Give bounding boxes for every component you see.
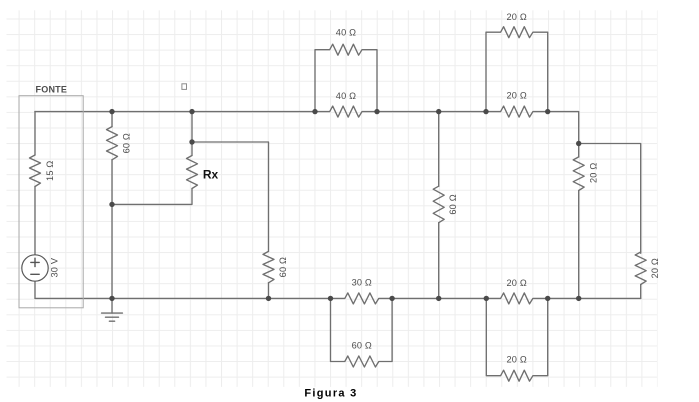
resistor 20 ohm upper branch (486, 27, 548, 112)
wire source column lower (34, 281, 36, 298)
wire node A column lower (111, 160, 113, 299)
wire node C to R12 top (579, 144, 641, 254)
wire R11 top lead (578, 144, 580, 157)
svg-text:FONTE: FONTE (36, 84, 68, 94)
junction node C bottom (576, 296, 581, 301)
wire source column middle (34, 187, 36, 255)
resistor 20 ohm on top rail (486, 106, 548, 117)
wire R8 bottom lead (438, 223, 440, 299)
wire top rail right segment to node C (548, 112, 579, 144)
junction node 60 lower-left bottom (266, 296, 271, 301)
junction node 20 pair right (545, 109, 550, 114)
svg-text:40 Ω: 40 Ω (336, 91, 356, 101)
junction node 20 bottom pair left (484, 296, 489, 301)
resistor Rx (187, 156, 198, 189)
svg-text:20 Ω: 20 Ω (506, 278, 526, 288)
resistor 60 ohm left (107, 127, 118, 160)
svg-text:60 Ω: 60 Ω (122, 133, 132, 153)
resistor 40 ohm lower (315, 106, 377, 117)
junction node 40 pair left (312, 109, 317, 114)
junction node C (576, 141, 581, 146)
wire top rail middle segment (377, 111, 486, 113)
svg-text:20 Ω: 20 Ω (589, 163, 599, 183)
svg-text:20 Ω: 20 Ω (506, 90, 526, 100)
wire bottom rail middle segment (392, 297, 486, 299)
svg-text:60 Ω: 60 Ω (278, 257, 288, 277)
junction node Rx upper (189, 139, 194, 144)
junction node 20 pair left (483, 109, 488, 114)
svg-text:Figura 3: Figura 3 (304, 387, 357, 399)
ground bar 1 (102, 312, 123, 314)
junction node 60 middle bottom (436, 296, 441, 301)
junction node A bottom (109, 296, 114, 301)
voltage source plus horizontal (31, 261, 39, 263)
wire bottom rail right segment (548, 297, 641, 299)
junction node 20 bottom pair right (545, 296, 550, 301)
voltage source 30 V circle (22, 255, 48, 281)
wire R8 top lead (438, 112, 440, 187)
junction node A mid (109, 202, 114, 207)
junction node 60 middle top (436, 109, 441, 114)
wire Rx top node to R4 top (192, 142, 269, 251)
resistor 20 ohm right vertical (573, 157, 584, 191)
resistor 60 ohm lower branch (331, 298, 393, 367)
wire top rail left segment (35, 111, 315, 113)
junction node 30 pair left (328, 296, 333, 301)
junction node Rx top rail (189, 109, 194, 114)
resistor 60 ohm lower-left vertical (263, 251, 274, 282)
svg-text:20 Ω: 20 Ω (650, 258, 660, 278)
wire Rx branch upper (191, 112, 193, 156)
wire bottom rail left segment (35, 297, 331, 299)
wire Rx bottom to node A (112, 189, 192, 205)
junction node A top (109, 109, 114, 114)
wire source column upper (34, 112, 36, 155)
ground stem (111, 298, 113, 313)
resistor 20 ohm on bottom rail (486, 293, 547, 304)
ground bar 3 (109, 320, 114, 322)
wire R4 bottom lead (268, 283, 270, 299)
resistor 20 ohm bottom branch (486, 298, 547, 381)
resistor 30 ohm (331, 293, 393, 304)
svg-text:20 Ω: 20 Ω (506, 12, 526, 22)
svg-text:60 Ω: 60 Ω (352, 340, 372, 350)
wire node A column upper (111, 112, 113, 127)
junction node 40 pair right (374, 109, 379, 114)
svg-text:40 Ω: 40 Ω (336, 27, 356, 37)
svg-text:30 V: 30 V (50, 257, 60, 277)
resistor 40 ohm upper branch (315, 44, 377, 111)
wire R12 bottom lead (640, 285, 642, 299)
stray editor handle square (182, 84, 187, 90)
junction node 30 pair right (389, 296, 394, 301)
voltage source plus vertical (34, 258, 36, 266)
svg-text:60 Ω: 60 Ω (448, 194, 458, 214)
svg-text:20 Ω: 20 Ω (506, 354, 526, 364)
ground bar 2 (106, 316, 119, 318)
svg-text:30 Ω: 30 Ω (352, 277, 372, 287)
svg-text:Rx: Rx (203, 167, 219, 181)
resistor 20 ohm far right vertical (635, 252, 646, 285)
FONTE container box (19, 96, 83, 308)
voltage source minus bar (31, 273, 39, 275)
resistor 15 ohm (30, 155, 41, 187)
resistor 60 ohm middle (433, 186, 444, 223)
svg-text:15 Ω: 15 Ω (45, 160, 55, 180)
wire R11 bottom lead (578, 191, 580, 299)
